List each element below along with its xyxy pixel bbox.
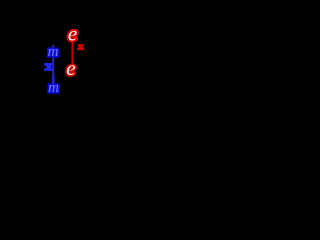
node x (red separation label)	[77, 44, 84, 50]
wire (red rod between electrons)	[71, 42, 73, 65]
svg-text:e: e	[66, 56, 75, 80]
svg-text:m: m	[48, 80, 59, 96]
wire (blue rod between masses)	[52, 45, 54, 78]
svg-text:m: m	[48, 44, 59, 60]
node x (blue separation label)	[44, 63, 52, 71]
svg-text:e: e	[68, 22, 77, 46]
